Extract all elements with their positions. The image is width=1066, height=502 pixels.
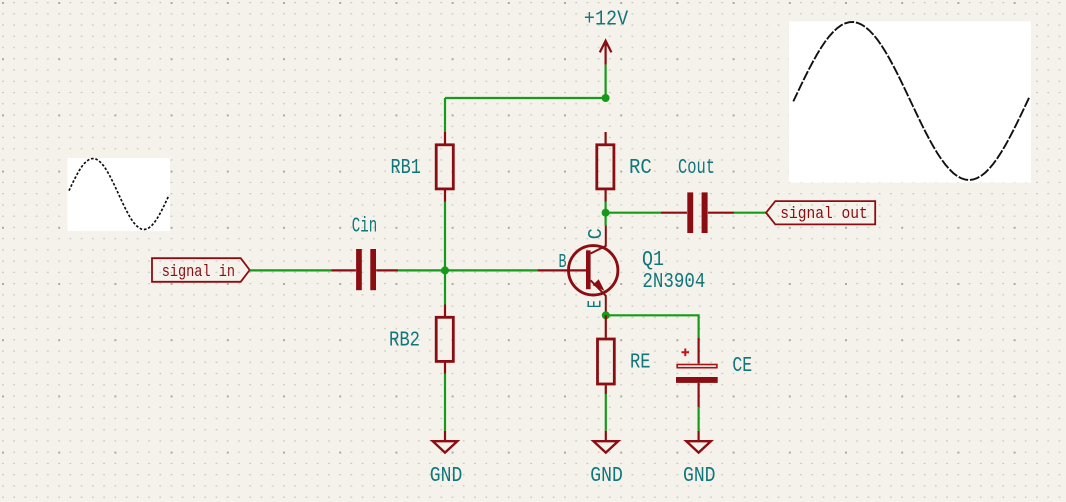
svg-text:signal out: signal out [780, 205, 867, 224]
resistor RB1 [391, 132, 454, 202]
ground (CE) [683, 431, 716, 488]
svg-text:GND: GND [430, 465, 463, 488]
capacitor Cout [661, 157, 734, 233]
capacitor Cin [332, 215, 399, 290]
svg-text:RC: RC [629, 157, 652, 180]
wire signal in to Cin [250, 269, 332, 271]
ground (RB2) [430, 431, 463, 488]
svg-text:+12V: +12V [584, 9, 629, 32]
wire top horizontal [445, 97, 606, 99]
svg-text:RB1: RB1 [391, 157, 421, 180]
svg-text:CE: CE [732, 355, 752, 378]
wire base junction down to RB2 [444, 270, 446, 304]
capacitor CE (electrolytic) [676, 338, 752, 407]
power +12V [584, 9, 629, 65]
wire RB1 to base junction [444, 202, 446, 271]
resistor RB2 [389, 305, 453, 374]
input waveform image (left sine) [68, 158, 171, 231]
label signal in [152, 258, 250, 282]
node collector junction [602, 209, 610, 217]
ground (RE) [590, 431, 623, 488]
resistor RE [598, 315, 651, 394]
label signal out [766, 201, 875, 224]
svg-text:C: C [585, 228, 607, 239]
wire RB2 to GND [444, 374, 446, 431]
wire down to RB1 [444, 98, 446, 132]
wire RE to GND [605, 394, 607, 431]
node emitter junction [602, 311, 610, 319]
node top junction [602, 94, 610, 102]
resistor RC [597, 132, 652, 202]
svg-text:Cin: Cin [352, 215, 378, 238]
wire Cin to base junction and on to base [398, 269, 537, 271]
node base junction [441, 266, 449, 274]
output waveform image (right sine) [789, 21, 1031, 182]
svg-text:2N3904: 2N3904 [642, 271, 705, 294]
wire +12V to top junction [604, 65, 606, 98]
wire RC to collector junction [604, 202, 606, 213]
svg-text:GND: GND [683, 465, 716, 488]
transistor Q1 2N3904 [538, 225, 706, 315]
wire CE to GND [697, 407, 699, 431]
svg-text:Q1: Q1 [642, 249, 664, 272]
svg-text:RB2: RB2 [389, 329, 420, 352]
svg-text:GND: GND [590, 465, 623, 488]
svg-text:B: B [559, 251, 567, 273]
wire collector junction to Cout [606, 212, 661, 214]
svg-text:RE: RE [630, 352, 651, 375]
wire collector junction down [604, 213, 606, 226]
svg-text:E: E [585, 300, 607, 308]
svg-text:Cout: Cout [678, 157, 715, 180]
wire Cout to signal out label [734, 212, 766, 214]
wire emitter junction to CE branch [606, 315, 699, 338]
svg-text:signal in: signal in [162, 263, 235, 282]
